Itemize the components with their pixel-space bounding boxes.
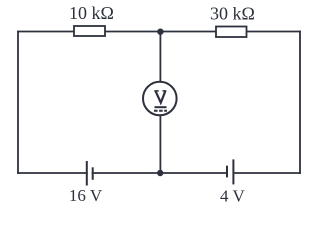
voltmeter U1 (143, 82, 177, 116)
wire bottom middle (93, 172, 227, 174)
battery 16V (87, 161, 93, 186)
svg-text:10 kΩ: 10 kΩ (69, 3, 114, 23)
battery 4V (227, 159, 233, 184)
resistor 10k box (74, 26, 105, 36)
label 16 V (69, 186, 103, 205)
wire middle branch (159, 32, 161, 174)
wire right (299, 32, 301, 174)
wire bottom right (233, 172, 300, 174)
label 10 kOhm (69, 3, 114, 23)
label 4 V (220, 187, 245, 206)
svg-text:4 V: 4 V (220, 187, 245, 206)
node bottom junction (157, 170, 163, 176)
wire bottom left (18, 172, 87, 174)
resistor 30k box (216, 27, 247, 38)
svg-text:30 kΩ: 30 kΩ (210, 4, 255, 24)
wire top (18, 31, 300, 33)
svg-text:16 V: 16 V (69, 186, 103, 205)
label 30 kOhm (210, 4, 255, 24)
node top junction (157, 29, 163, 35)
wire left (17, 32, 19, 174)
